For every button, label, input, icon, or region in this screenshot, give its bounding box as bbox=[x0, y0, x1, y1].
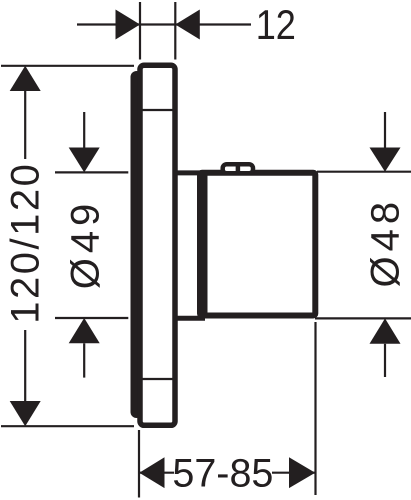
arrowhead left (width 12 dim) bbox=[116, 10, 141, 40]
safety stop button on knob bbox=[223, 164, 253, 173]
witness line top (dia 49 dim) bbox=[55, 171, 128, 173]
dimension line (width 12 dim) bbox=[77, 23, 251, 25]
escutcheon plate (side view) bbox=[140, 65, 175, 425]
value label 57-85 bbox=[172, 452, 273, 496]
arrowhead up (dia 49 dim) bbox=[69, 318, 100, 343]
arrow tail lower (dia 48 dim) bbox=[384, 344, 386, 377]
extension line right (width 12 dim) bbox=[174, 2, 176, 60]
arrow tail upper (dia 49 dim) bbox=[83, 112, 85, 148]
sleeve top contour bbox=[175, 170, 205, 175]
button divider bbox=[236, 164, 241, 174]
thermostat handle knob bbox=[200, 173, 315, 316]
svg-text:12: 12 bbox=[256, 1, 296, 48]
svg-text:Ø49: Ø49 bbox=[64, 199, 108, 290]
witness line bottom (height 120/120 dim) bbox=[1, 425, 134, 427]
value label dia 49 bbox=[64, 199, 108, 290]
dimension line right segment (57-85 dim) bbox=[272, 472, 315, 474]
arrowhead up (120/120 dim) bbox=[10, 66, 41, 91]
witness line bottom (dia 49 dim) bbox=[55, 317, 128, 319]
dimension line lower segment (120/120 dim) bbox=[24, 330, 26, 401]
extension line left (depth 57-85 dim) bbox=[138, 430, 140, 498]
extension line right (depth 57-85 dim) bbox=[314, 322, 316, 495]
value label 120/120 bbox=[4, 162, 48, 324]
arrow tail upper (dia 48 dim) bbox=[384, 112, 386, 148]
witness line top (dia 48 dim) bbox=[317, 171, 411, 173]
dimension line left segment (57-85 dim) bbox=[139, 472, 174, 474]
sleeve bottom contour bbox=[175, 316, 205, 321]
arrowhead down (dia 49 dim) bbox=[69, 148, 100, 173]
arrow tail lower (dia 49 dim) bbox=[83, 343, 85, 377]
plate inner edge upper bbox=[143, 109, 173, 111]
svg-text:120/120: 120/120 bbox=[4, 162, 48, 324]
value label 12 bbox=[256, 1, 296, 48]
wall flange behind plate bbox=[131, 71, 143, 418]
plate inner edge lower bbox=[143, 378, 173, 380]
arrowhead right (57-85 dim) bbox=[289, 457, 315, 488]
arrowhead right (width 12 dim) bbox=[175, 10, 200, 40]
svg-text:Ø48: Ø48 bbox=[364, 197, 408, 288]
arrowhead up (dia 48 dim) bbox=[370, 318, 401, 343]
witness line bottom (dia 48 dim) bbox=[315, 317, 411, 319]
arrowhead left (57-85 dim) bbox=[139, 457, 164, 488]
svg-text:57-85: 57-85 bbox=[172, 452, 273, 496]
witness line top (height 120/120 dim) bbox=[1, 65, 134, 67]
arrowhead down (dia 48 dim) bbox=[370, 148, 401, 172]
extension line left (width 12 dim) bbox=[139, 2, 141, 60]
knob joint edge bbox=[202, 173, 208, 316]
value label dia 48 bbox=[364, 197, 408, 288]
dimension line upper segment (120/120 dim) bbox=[24, 91, 26, 159]
arrowhead down (120/120 dim) bbox=[10, 401, 41, 426]
